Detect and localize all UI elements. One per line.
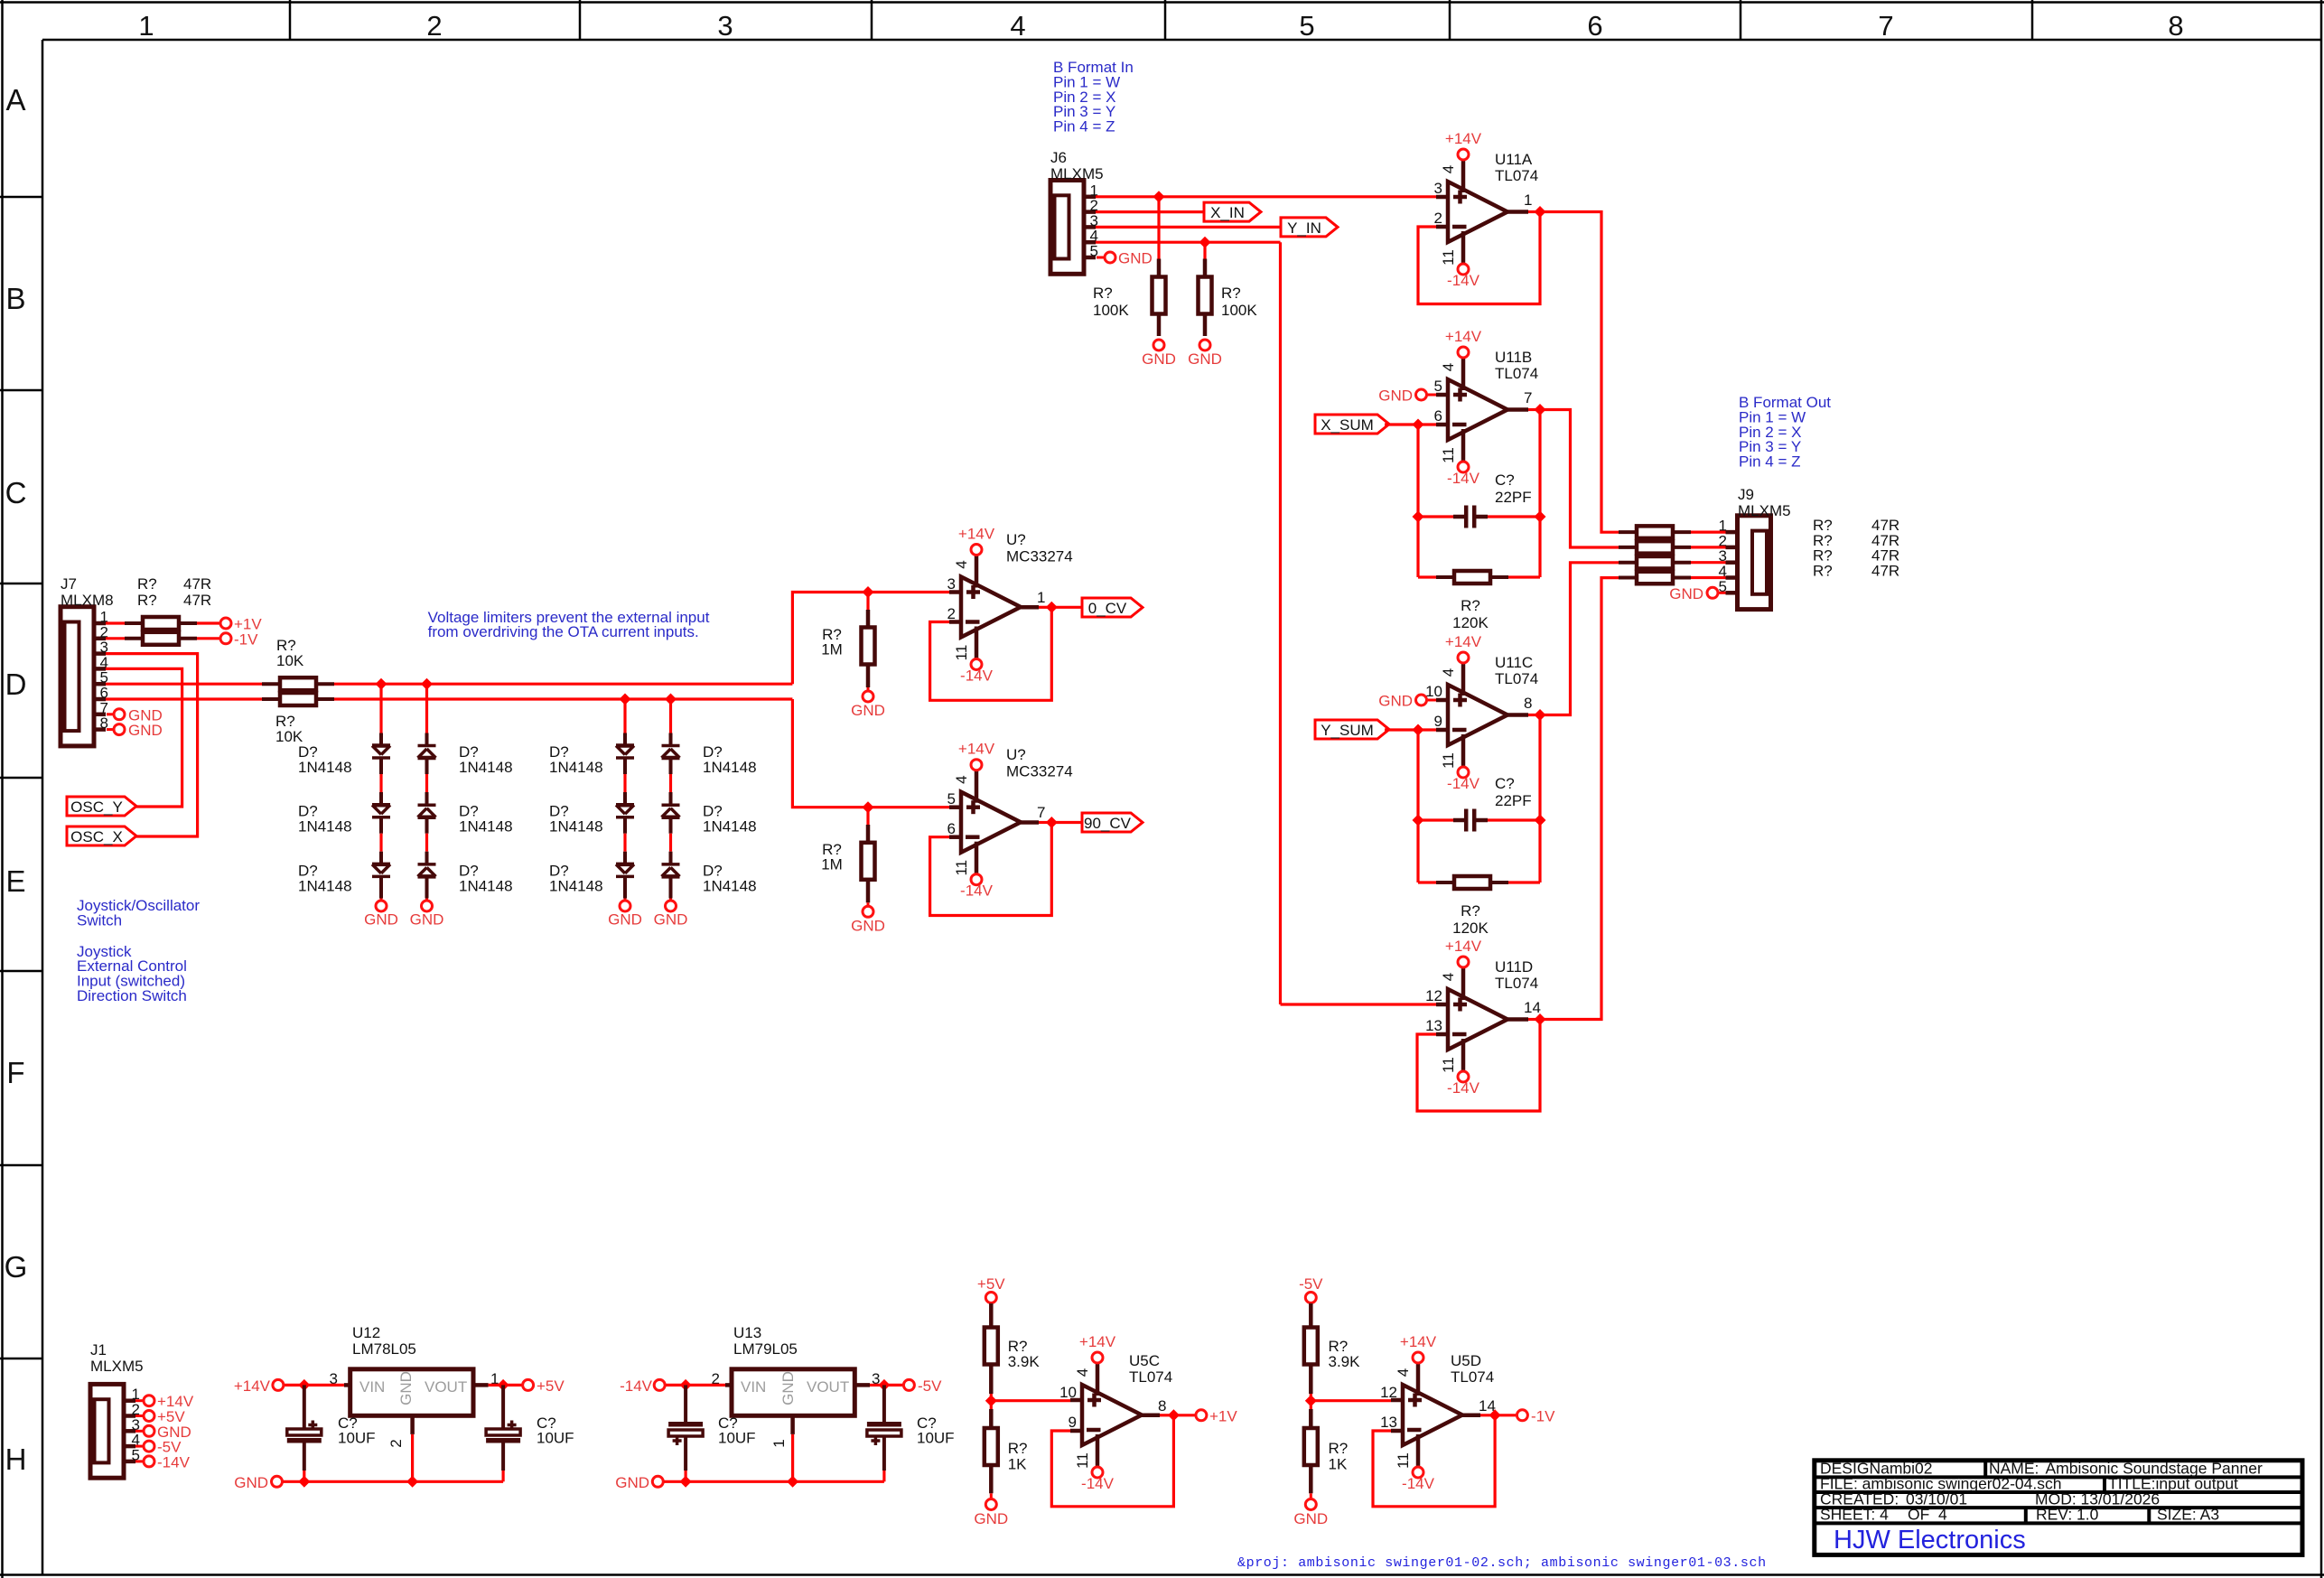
svg-text:13: 13 [1425, 1017, 1442, 1034]
svg-text:2: 2 [426, 10, 442, 42]
svg-text:22PF: 22PF [1495, 792, 1532, 809]
svg-text:HJW Electronics: HJW Electronics [1834, 1526, 2026, 1555]
svg-text:14: 14 [1524, 999, 1541, 1016]
pin stubs U11C [1436, 698, 1448, 703]
wire U5D feedback loop [1373, 1415, 1495, 1507]
node cap left U11B [1413, 511, 1424, 523]
pin stubs U11A [1436, 195, 1448, 200]
svg-text:3: 3 [717, 10, 733, 42]
svg-text:C?: C? [1495, 472, 1515, 489]
wire lower rail 90deg [334, 697, 792, 700]
svg-text:4: 4 [953, 560, 970, 568]
power -5V at J1 [135, 1445, 143, 1448]
svg-text:U11B: U11B [1495, 349, 1532, 366]
svg-text:22PF: 22PF [1495, 489, 1532, 506]
ground diode column 2 [422, 901, 433, 911]
diode D? 1N4148 col3 row2 [616, 803, 634, 808]
wire upper rail 0deg [334, 683, 792, 686]
diode D? 1N4148 col3 row1 [616, 743, 634, 748]
svg-text:F: F [6, 1056, 24, 1089]
power -14V at J1 [135, 1460, 143, 1462]
resistor R? 120K (U11C feedback) [1418, 881, 1436, 883]
wire J7 pin6 (90deg net) [106, 697, 262, 700]
svg-text:MLXM8: MLXM8 [61, 592, 114, 609]
capacitor C? 10UF (U13 input) [684, 1385, 687, 1422]
svg-text:11: 11 [1440, 752, 1457, 769]
resistor R? 47R (J9 pin3) [1619, 561, 1637, 565]
svg-text:4: 4 [1938, 1506, 1947, 1524]
svg-text:1N4148: 1N4148 [703, 818, 757, 836]
connector J1 MLXM5 [90, 1384, 124, 1478]
title block [1815, 1461, 2302, 1555]
svg-text:TL074: TL074 [1129, 1368, 1172, 1386]
node U5C output [1168, 1409, 1180, 1421]
net flag Y_SUM [1315, 720, 1389, 739]
svg-text:4: 4 [1010, 10, 1025, 42]
ground left divider [985, 1499, 996, 1510]
svg-text:47R: 47R [183, 592, 211, 609]
svg-text:7: 7 [1037, 804, 1045, 821]
svg-text:VOUT: VOUT [807, 1378, 849, 1396]
node U12 input junction [298, 1379, 310, 1391]
pin1 U12 VOUT [473, 1383, 489, 1387]
svg-text:+1V: +1V [1209, 1408, 1237, 1425]
node cap right U11C [1535, 815, 1546, 826]
svg-text:VIN: VIN [741, 1378, 766, 1396]
diode D? 1N4148 col1 row1 [372, 743, 390, 748]
svg-text:REV: 1.0: REV: 1.0 [2036, 1506, 2099, 1524]
node U11C output [1535, 709, 1546, 721]
op-amp U11C TL074 [1448, 685, 1507, 745]
svg-text:11: 11 [953, 645, 970, 661]
svg-text:0_CV: 0_CV [1088, 600, 1127, 617]
power -1V at J7 pin2 [220, 633, 231, 644]
node gnd rail U12 pin2 [406, 1476, 418, 1488]
svg-text:H: H [5, 1443, 27, 1476]
power +1V output [1173, 1414, 1195, 1416]
wire 90deg rail to U? pin5 [792, 699, 949, 808]
power -5V at U13 output [884, 1384, 903, 1387]
svg-text:11: 11 [1440, 447, 1457, 463]
svg-text:10UF: 10UF [718, 1430, 756, 1447]
svg-text:-5V: -5V [1299, 1275, 1323, 1293]
pin stubs U? upper [949, 590, 961, 594]
svg-text:R?: R? [1461, 597, 1480, 614]
svg-text:-14V: -14V [157, 1453, 191, 1471]
node cap right U11B [1535, 511, 1546, 523]
svg-text:+14V: +14V [1445, 633, 1482, 650]
svg-text:-14V: -14V [1447, 272, 1480, 289]
op-amp U11B TL074 [1448, 379, 1507, 440]
svg-text:C: C [5, 476, 27, 509]
wire U? upper feedback [930, 607, 1052, 700]
svg-text:-14V: -14V [1447, 775, 1480, 792]
svg-text:R?: R? [1329, 1440, 1349, 1457]
svg-text:+14V: +14V [958, 526, 995, 543]
svg-text:GND: GND [1378, 387, 1413, 405]
pin stubs U5C [1070, 1398, 1082, 1403]
op-amp U? MC33274 (0_CV) [961, 577, 1021, 638]
svg-text:-14V: -14V [1447, 1079, 1480, 1097]
svg-text:10UF: 10UF [917, 1430, 955, 1447]
svg-text:Pin 4 = Z: Pin 4 = Z [1053, 118, 1115, 135]
diode D? 1N4148 col2 row3 [418, 863, 436, 866]
svg-text:J7: J7 [61, 575, 77, 593]
svg-text:2: 2 [947, 605, 956, 622]
svg-text:GND: GND [1378, 693, 1413, 710]
node U13 input junction [680, 1379, 692, 1391]
svg-text:1N4148: 1N4148 [298, 818, 352, 836]
connector J7 MLXM8 [61, 607, 94, 746]
svg-text:U13: U13 [733, 1324, 761, 1341]
node R 1M upper junction [863, 586, 874, 598]
ground J6 pin5 [1097, 257, 1104, 259]
svg-text:5: 5 [947, 790, 956, 808]
net flag X_SUM [1315, 415, 1389, 434]
svg-text:U11A: U11A [1495, 151, 1533, 168]
svg-text:U11C: U11C [1495, 654, 1533, 671]
diode D? 1N4148 col2 row1 [418, 744, 436, 748]
svg-text:11: 11 [1440, 1057, 1457, 1073]
svg-text:TL074: TL074 [1495, 670, 1538, 687]
pin stubs U11B [1436, 393, 1448, 397]
node X_SUM junction [1413, 419, 1424, 431]
pin3 U13 VOUT [854, 1383, 870, 1387]
resistor R? 47R (J7 pin1) [106, 621, 125, 624]
resistor R? 47R (J9 pin4) [1619, 576, 1637, 580]
svg-text:11: 11 [1074, 1452, 1091, 1469]
svg-text:100K: 100K [1093, 302, 1129, 319]
svg-text:1: 1 [1037, 589, 1045, 606]
svg-text:GND: GND [364, 911, 398, 929]
svg-text:GND: GND [410, 911, 444, 929]
power +5V at U12 output [503, 1384, 522, 1387]
svg-text:1: 1 [138, 10, 154, 42]
svg-text:R?: R? [137, 592, 157, 609]
svg-text:GND: GND [1188, 350, 1222, 368]
svg-text:GND: GND [851, 917, 885, 934]
wire U11C feedback vertical [1416, 730, 1419, 882]
resistor R? 1M (lower) [866, 808, 869, 825]
svg-text:5: 5 [1299, 10, 1314, 42]
svg-text:7: 7 [1524, 389, 1532, 406]
wire divider to U5D pin12 [1311, 1399, 1391, 1402]
svg-text:1: 1 [1524, 191, 1532, 209]
svg-text:4: 4 [1440, 363, 1457, 371]
diode D? 1N4148 col1 row3 [372, 863, 390, 867]
node gnd rail U13 pin1 [787, 1476, 798, 1488]
svg-text:B: B [5, 282, 25, 315]
svg-text:J6: J6 [1050, 149, 1067, 166]
wire U11D output to J9 pin4 [1540, 578, 1619, 1020]
svg-text:LM78L05: LM78L05 [352, 1340, 416, 1358]
svg-text:10: 10 [1425, 683, 1442, 700]
svg-text:100K: 100K [1221, 302, 1257, 319]
net flag X_IN [1204, 202, 1261, 221]
wire J6 pin3 to Y_IN [1096, 226, 1281, 229]
svg-text:1N4148: 1N4148 [459, 759, 513, 776]
svg-text:R?: R? [1461, 902, 1480, 920]
ground at U11B pin5 [1428, 394, 1437, 397]
ground R 1M upper [863, 691, 873, 702]
svg-text:6: 6 [1434, 407, 1442, 425]
svg-text:9: 9 [1434, 713, 1442, 730]
node Y_SUM junction [1413, 724, 1424, 736]
node gnd rail cap1 [298, 1476, 310, 1488]
svg-text:1N4148: 1N4148 [459, 877, 513, 894]
svg-text:12: 12 [1425, 987, 1442, 1004]
svg-text:J1: J1 [90, 1341, 107, 1359]
svg-text:Pin 4 = Z: Pin 4 = Z [1739, 453, 1801, 471]
svg-text:Direction Switch: Direction Switch [77, 987, 187, 1004]
svg-text:1: 1 [770, 1439, 788, 1447]
svg-text:GND: GND [1142, 350, 1176, 368]
svg-text:-14V: -14V [1081, 1475, 1115, 1492]
svg-text:1N4148: 1N4148 [549, 877, 603, 894]
wire J6 pin4 (Z net) to U11D pin12 [1096, 241, 1281, 244]
svg-text:-1V: -1V [1531, 1408, 1555, 1425]
node U11A output [1535, 206, 1546, 218]
svg-text:GND: GND [1293, 1510, 1328, 1527]
svg-text:6: 6 [1587, 10, 1602, 42]
svg-text:1N4148: 1N4148 [298, 877, 352, 894]
power +1V at J7 pin1 [220, 618, 231, 629]
svg-text:+14V: +14V [234, 1377, 271, 1395]
svg-text:1K: 1K [1329, 1456, 1348, 1473]
svg-text:VOUT: VOUT [425, 1378, 467, 1396]
node junction J6 pin4 [1199, 237, 1211, 248]
svg-text:U?: U? [1006, 531, 1026, 548]
resistor R? 1K (left divider) [990, 1401, 993, 1409]
resistor R? 47R (J9 pin2) [1619, 546, 1637, 549]
ground J9 pin5 [1719, 592, 1726, 594]
wire diode column 3 from rail [620, 694, 631, 705]
node U? upper output [1046, 602, 1058, 613]
svg-text:A: A [5, 83, 25, 117]
svg-text:7: 7 [1878, 10, 1893, 42]
capacitor C? 22PF (U11C) [1418, 818, 1453, 821]
svg-text:1M: 1M [821, 641, 843, 658]
svg-text:GND: GND [615, 1474, 649, 1491]
svg-text:-14V: -14V [1402, 1475, 1435, 1492]
svg-text:3.9K: 3.9K [1008, 1353, 1041, 1370]
svg-text:9: 9 [1069, 1414, 1077, 1431]
ground for R? 100K #1 [1153, 340, 1164, 350]
svg-text:+5V: +5V [537, 1377, 565, 1395]
capacitor C? 10UF (U12 output) [501, 1385, 505, 1429]
svg-text:VIN: VIN [359, 1378, 385, 1396]
svg-text:1N4148: 1N4148 [298, 759, 352, 776]
svg-text:10UF: 10UF [537, 1430, 574, 1447]
svg-text:TL074: TL074 [1495, 167, 1538, 184]
svg-text:+14V: +14V [1445, 328, 1482, 345]
pin stubs U11D [1436, 1003, 1448, 1007]
capacitor C? 10UF (U13 output) [882, 1385, 886, 1422]
svg-text:1K: 1K [1008, 1456, 1027, 1473]
svg-text:TL074: TL074 [1495, 975, 1538, 992]
svg-text:C?: C? [1495, 775, 1515, 792]
wire U11B feedback vertical [1416, 425, 1419, 577]
svg-text:11: 11 [1395, 1452, 1412, 1469]
resistor R? 1K (right divider) [1310, 1401, 1312, 1409]
svg-text:D: D [5, 668, 27, 701]
capacitor C? 22PF (U11B) [1418, 515, 1453, 518]
pin stubs U? lower [949, 805, 961, 809]
svg-text:2: 2 [1434, 210, 1442, 227]
ground J7 pin8 [107, 728, 113, 731]
svg-text:120K: 120K [1452, 920, 1489, 937]
node left divider junction [985, 1395, 997, 1406]
resistor R? 3.9K (right divider) [1309, 1303, 1313, 1328]
svg-text:Y_IN: Y_IN [1287, 219, 1321, 237]
svg-text:-14V: -14V [960, 668, 994, 685]
node R 1M lower junction [863, 801, 874, 813]
svg-text:GND: GND [128, 722, 163, 739]
node right divider junction [1305, 1395, 1317, 1406]
wire 0deg rail to U? pin3 [792, 593, 949, 685]
resistor R? 100K (Z net pulldown) [1203, 242, 1206, 258]
svg-text:GND: GND [608, 911, 642, 929]
wire U? lower feedback [930, 823, 1052, 916]
svg-text:GND: GND [234, 1474, 268, 1491]
svg-text:8: 8 [1524, 695, 1532, 712]
svg-text:&proj: ambisonic swinger01-02.: &proj: ambisonic swinger01-02.sch; ambis… [1237, 1555, 1767, 1571]
wire U11D feedback loop [1417, 1020, 1540, 1112]
svg-text:GND: GND [974, 1510, 1008, 1527]
svg-text:10UF: 10UF [338, 1430, 376, 1447]
power GND at J1 [135, 1430, 143, 1433]
svg-text:13: 13 [1380, 1414, 1397, 1431]
ground J7 pin7 [107, 713, 113, 715]
svg-text:U5D: U5D [1451, 1352, 1481, 1369]
wire U11A feedback loop [1418, 212, 1540, 304]
op-amp U5C TL074 [1082, 1385, 1142, 1445]
node U12 output junction [498, 1379, 509, 1391]
svg-text:OF: OF [1908, 1506, 1929, 1524]
svg-text:47R: 47R [1871, 563, 1899, 580]
svg-text:U?: U? [1006, 746, 1026, 763]
svg-text:4: 4 [1440, 668, 1457, 677]
op-amp U11D TL074 [1448, 989, 1507, 1050]
svg-text:-14V: -14V [960, 882, 994, 900]
svg-text:TL074: TL074 [1451, 1368, 1494, 1386]
wire J7 pin3 to OSC_X [106, 654, 198, 836]
svg-text:G: G [5, 1250, 28, 1284]
op-amp U11A TL074 [1448, 182, 1507, 242]
svg-text:SIZE: A3: SIZE: A3 [2157, 1506, 2219, 1524]
net flag 0_CV [1051, 606, 1082, 609]
wire diode column 2 from rail [421, 678, 433, 690]
resistor R? 1M (upper) [866, 593, 869, 611]
wire U11B output to J9 pin2 [1540, 410, 1619, 548]
connector J6 MLXM5 [1050, 181, 1084, 275]
svg-text:1N4148: 1N4148 [703, 877, 757, 894]
svg-text:2: 2 [387, 1439, 405, 1447]
svg-text:4: 4 [1440, 973, 1457, 981]
svg-text:4: 4 [1395, 1368, 1412, 1377]
svg-text:X_IN: X_IN [1210, 204, 1245, 221]
pin stubs U5D [1391, 1398, 1403, 1403]
svg-text:R?: R? [1813, 563, 1833, 580]
svg-text:-14V: -14V [1447, 470, 1480, 487]
svg-text:R?: R? [1008, 1440, 1028, 1457]
pin1 U13 GND [790, 1415, 795, 1434]
node gnd rail cap3 [680, 1476, 692, 1488]
pin2 U12 GND [410, 1415, 415, 1434]
wire Y_SUM to U11C pin9 [1385, 728, 1436, 731]
regulator U12 LM78L05 [350, 1369, 473, 1416]
svg-text:8: 8 [2168, 10, 2183, 42]
resistor R? 47R (J9 pin1) [1619, 530, 1637, 534]
svg-text:3: 3 [1434, 180, 1442, 197]
svg-text:-1V: -1V [234, 630, 258, 648]
regulator U13 LM79L05 [732, 1369, 854, 1416]
ground diode column 3 [620, 901, 630, 911]
ground for R? 100K #2 [1199, 340, 1210, 350]
op-amp U? MC33274 (90_CV) [961, 792, 1021, 853]
svg-text:47R: 47R [183, 575, 211, 593]
svg-text:+14V: +14V [1445, 130, 1482, 147]
svg-text:+14V: +14V [958, 741, 995, 758]
diode D? 1N4148 col4 row2 [662, 803, 680, 807]
power +14V at J1 [135, 1399, 143, 1402]
wire divider to U5C pin10 [991, 1399, 1070, 1402]
wire J7 pin5 (0deg net) [106, 683, 262, 686]
svg-text:R?: R? [137, 575, 157, 593]
svg-text:R?: R? [1093, 285, 1113, 302]
svg-text:U5C: U5C [1129, 1352, 1160, 1369]
svg-text:from overdriving the OTA curre: from overdriving the OTA current inputs. [428, 623, 699, 640]
svg-text:+5V: +5V [977, 1275, 1005, 1293]
svg-text:GND: GND [1669, 585, 1703, 602]
pin2 U13 VIN [725, 1383, 732, 1387]
svg-text:E: E [5, 864, 25, 898]
svg-text:TL074: TL074 [1495, 365, 1538, 382]
svg-text:3.9K: 3.9K [1329, 1353, 1361, 1370]
svg-text:-5V: -5V [918, 1377, 942, 1395]
node U11B output [1535, 404, 1546, 416]
svg-text:LM79L05: LM79L05 [733, 1340, 798, 1358]
resistor R? 10K (lower) [262, 697, 280, 701]
svg-text:GND: GND [851, 702, 885, 719]
diode D? 1N4148 col4 row1 [662, 744, 680, 748]
resistor R? 10K (upper) [262, 682, 280, 686]
svg-text:1N4148: 1N4148 [459, 818, 513, 836]
svg-text:MLXM5: MLXM5 [1738, 502, 1791, 519]
net flag Y_IN [1281, 218, 1338, 237]
svg-text:+14V: +14V [1079, 1333, 1116, 1350]
power -1V output [1495, 1414, 1516, 1416]
node cap left U11C [1413, 815, 1424, 826]
svg-text:4: 4 [1074, 1368, 1091, 1377]
node U5D output [1489, 1409, 1501, 1421]
svg-text:11: 11 [1440, 249, 1457, 266]
wire U5C feedback loop [1051, 1415, 1173, 1507]
svg-text:-14V: -14V [620, 1377, 653, 1395]
svg-text:R?: R? [1221, 285, 1241, 302]
net flag 90_CV [1051, 821, 1082, 824]
net flag OSC_X [67, 826, 136, 845]
svg-text:6: 6 [947, 820, 956, 837]
wire diode column 1 from rail [376, 678, 387, 690]
svg-text:OSC_X: OSC_X [70, 828, 123, 845]
diode D? 1N4148 col2 row2 [418, 803, 436, 807]
diode D? 1N4148 col4 row3 [662, 863, 680, 866]
svg-text:8: 8 [1158, 1397, 1166, 1415]
wire J6 pin2 to X_IN [1096, 210, 1204, 213]
wire J7 pin4 to OSC_Y [106, 668, 182, 807]
svg-text:GND: GND [779, 1371, 797, 1405]
